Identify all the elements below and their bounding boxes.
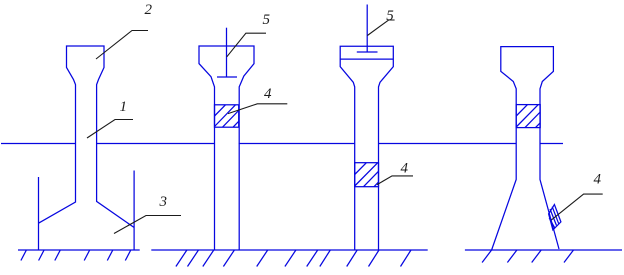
pile 4 sleeve hatch: [549, 207, 559, 228]
leader label 3: [114, 216, 181, 234]
water line segment B: [97, 143, 215, 145]
ground hatch ticks middle: [176, 250, 411, 267]
pit wall right: [133, 171, 135, 251]
pile 4 sleeve diamond: [549, 205, 561, 230]
pile 2 collar box: [215, 105, 239, 127]
leader label 4 pile4: [551, 194, 602, 220]
svg-text:4: 4: [401, 161, 409, 177]
leader label 1: [87, 120, 133, 139]
pile 4 collar box: [516, 105, 540, 128]
pile 3 rod: [366, 5, 368, 53]
pile 3 collar box: [355, 163, 379, 187]
pile 2 collar hatch: [215, 105, 239, 127]
pile 4 collar hatch: [516, 105, 540, 128]
svg-text:4: 4: [264, 86, 272, 102]
pile 3 rod bottom tick: [357, 51, 378, 53]
pile 2 rod bottom tick: [217, 76, 237, 78]
ground line segment C: [465, 249, 622, 251]
ground line segment A: [18, 249, 140, 251]
svg-text:2: 2: [145, 2, 153, 18]
svg-text:5: 5: [263, 12, 271, 28]
svg-text:1: 1: [120, 99, 128, 115]
leader label 5 pile3: [367, 20, 394, 36]
water line segment C: [239, 143, 355, 145]
ground line segment B: [151, 249, 427, 251]
pile 3 collar hatch: [355, 163, 379, 187]
pile 1 outline (head, shaft, bottom flare): [39, 46, 135, 228]
pit wall left: [38, 177, 40, 250]
pile 2 outline: [199, 46, 254, 250]
water line segment A: [1, 143, 76, 145]
leader label 4 pile2: [228, 104, 287, 114]
pile 4 outline (head, shaft, splayed base): [492, 47, 559, 250]
ground hatch ticks left: [21, 250, 131, 261]
water line segment E: [540, 143, 563, 145]
pile 3 outline: [340, 46, 393, 250]
water line segment D: [378, 143, 516, 145]
pile 3 head inner line: [340, 58, 393, 60]
svg-text:4: 4: [594, 172, 602, 188]
pile 2 rod: [226, 28, 228, 77]
leader label 2: [96, 31, 148, 60]
ground hatch ticks right: [482, 250, 573, 263]
leader label 5 pile2: [227, 33, 266, 57]
svg-text:3: 3: [159, 194, 168, 210]
svg-text:5: 5: [386, 8, 394, 24]
leader label 4 pile3: [377, 176, 413, 185]
